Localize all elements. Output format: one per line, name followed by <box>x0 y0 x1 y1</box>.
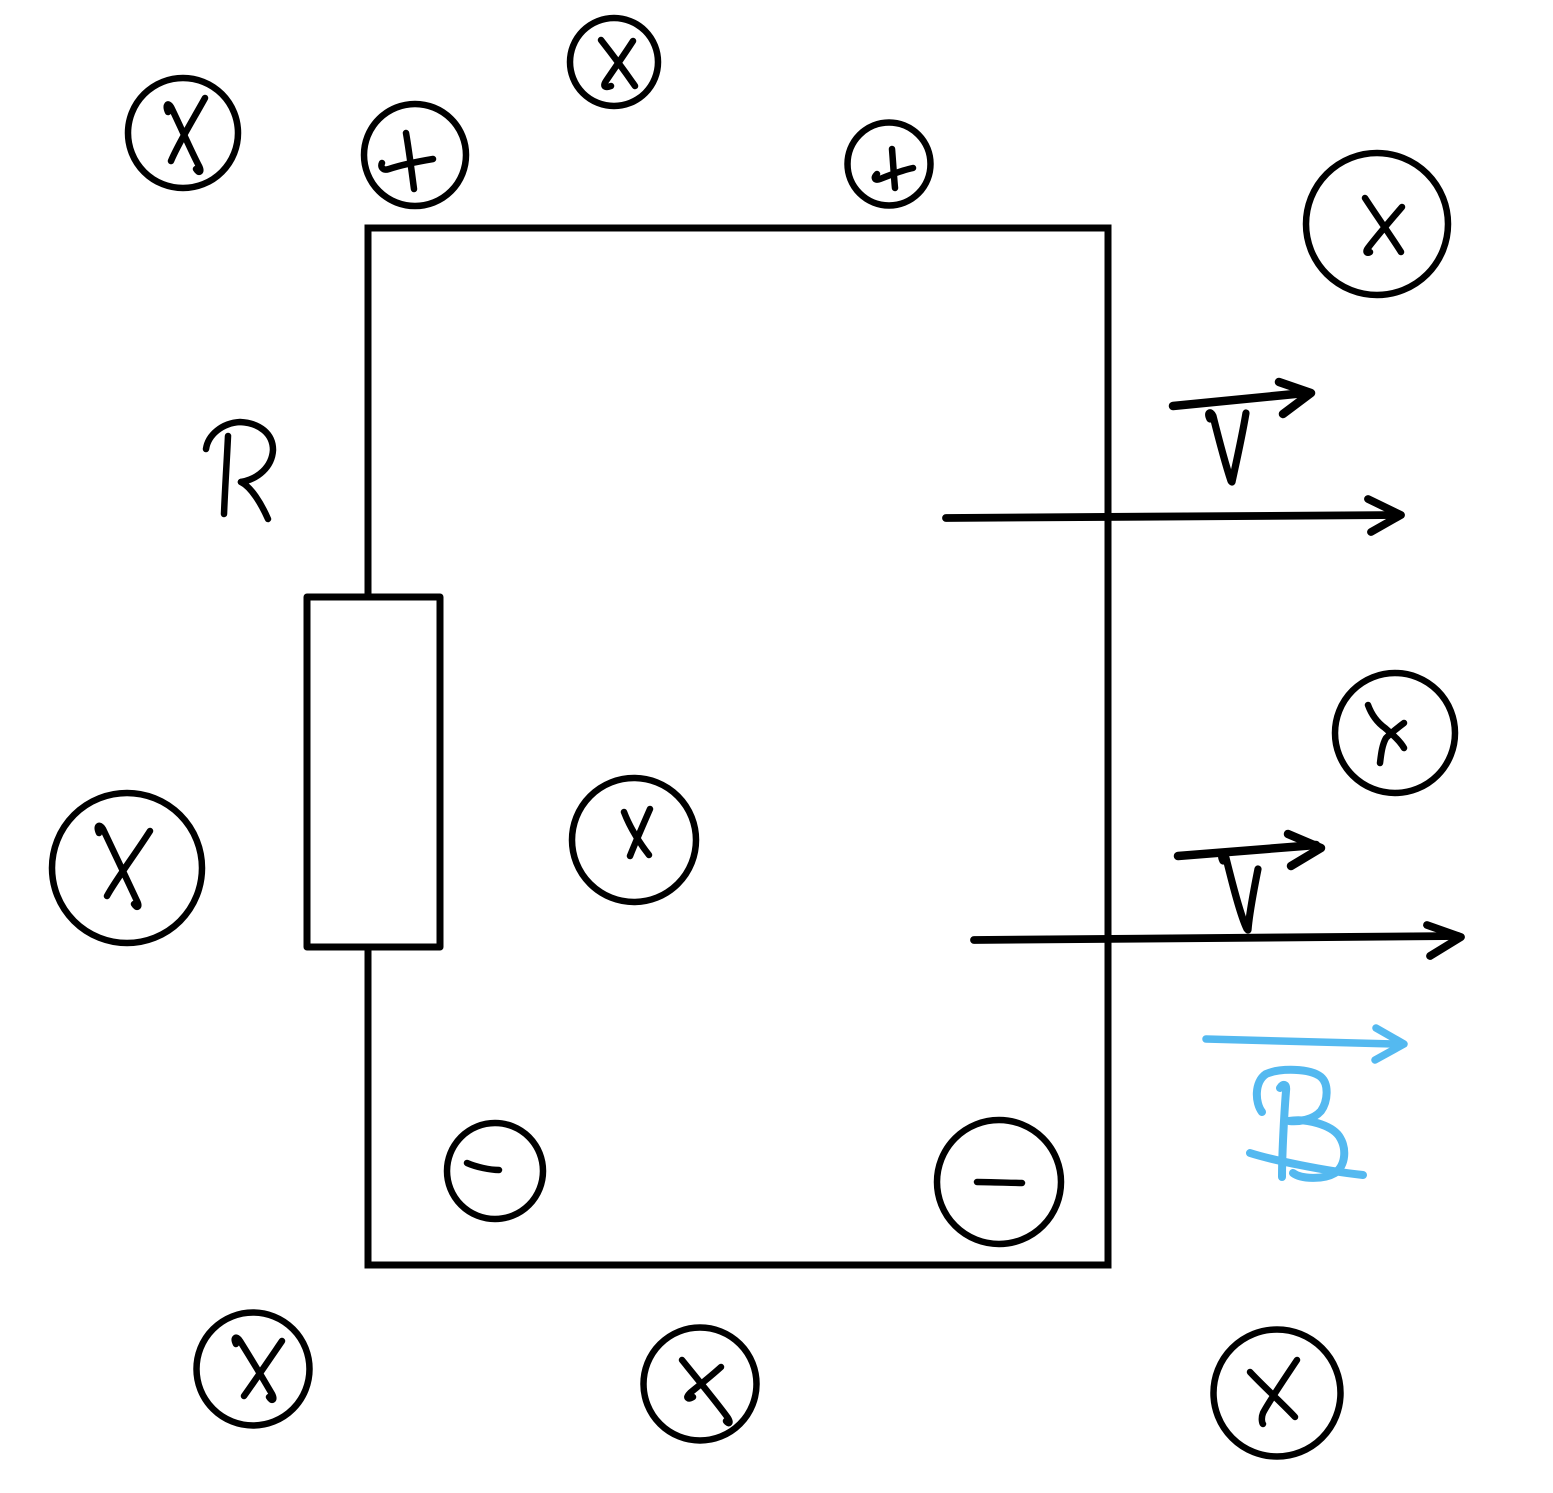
charge − on bottom wire (left) <box>447 1123 543 1219</box>
wire: left side upper segment (top corner to resistor R) <box>365 225 372 600</box>
charge + on top wire (right) <box>848 123 931 206</box>
field symbol X into page (bottom-left) <box>197 1313 310 1426</box>
field symbol X into page (center, inside loop) <box>572 778 696 902</box>
wire: top side of loop <box>365 225 1112 232</box>
label R <box>206 422 273 519</box>
field symbol X into page (top-left) <box>128 78 238 188</box>
label v with small arrow (upper) <box>1173 382 1311 482</box>
field symbol X into page (right-top) <box>1306 153 1448 295</box>
label B (blue) <box>1250 1070 1363 1178</box>
wire: bottom side of loop <box>365 1262 1112 1269</box>
field symbol X into page (top-center) <box>570 18 658 106</box>
charge + on top wire (left) <box>364 104 466 206</box>
charge − on bottom wire (right) <box>937 1120 1061 1244</box>
B field arrow (blue) <box>1206 1028 1404 1060</box>
velocity arrow v (upper rod) <box>946 499 1401 532</box>
wire: left side lower segment (resistor R to bottom corner) <box>365 945 372 1269</box>
field symbol X into page (bottom-right) <box>1214 1330 1341 1457</box>
resistor R (box) <box>307 597 440 947</box>
wire: right side of loop <box>1105 225 1112 1269</box>
field symbol X into page (right-middle) <box>1335 673 1455 793</box>
velocity arrow v (lower rod) <box>974 925 1461 956</box>
field symbol X into page (left-middle) <box>52 793 202 943</box>
label v with small arrow (lower) <box>1178 834 1321 930</box>
field symbol X into page (bottom-center) <box>644 1328 757 1441</box>
